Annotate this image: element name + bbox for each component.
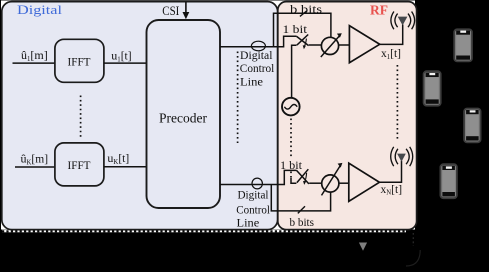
precoder block <box>147 20 221 208</box>
dots oscillator to switch N <box>290 119 292 159</box>
svg-text:ûK[m]: ûK[m] <box>21 152 49 167</box>
faint outer box dotted edge <box>412 233 414 246</box>
amplifier AN <box>349 163 380 201</box>
wire ampN to antenna N <box>379 161 401 183</box>
white paper behind blocks <box>1 1 415 230</box>
amplifier A1 <box>349 26 379 63</box>
phone user 1 <box>454 29 472 61</box>
scroll arrow <box>359 243 367 251</box>
svg-text:Digital: Digital <box>238 187 270 201</box>
svg-text:uK[t]: uK[t] <box>107 151 129 166</box>
wire IFFT1 to precoder <box>104 62 147 64</box>
antenna N <box>397 154 406 162</box>
oscillator LO <box>282 98 300 116</box>
phone user 2 <box>424 71 441 106</box>
faint outer box right corner <box>406 250 420 266</box>
RF block background <box>278 2 417 230</box>
Digital block background <box>2 2 278 230</box>
phase shifter PSN <box>322 175 339 192</box>
dots between IFFT blocks <box>80 96 82 139</box>
phone user 3 <box>464 109 481 143</box>
dots RF chains <box>396 65 398 142</box>
svg-text:IFFT: IFFT <box>68 56 91 68</box>
svg-text:x1[t]: x1[t] <box>381 48 401 61</box>
slash on b bits bottom <box>298 206 305 213</box>
wire switch N to PSN <box>309 182 322 184</box>
phase shifter PS1 <box>321 37 338 54</box>
wire PS1 to amp1 <box>339 44 350 46</box>
wire LO to switch N <box>291 178 296 183</box>
dashed figure border bottom <box>2 230 406 232</box>
slash on b bits top <box>300 11 307 16</box>
svg-text:Control: Control <box>236 202 270 216</box>
svg-text:Control: Control <box>240 61 275 75</box>
b bits wire top <box>274 13 331 47</box>
antenna 1 <box>398 17 408 26</box>
svg-text:CSI: CSI <box>162 3 179 18</box>
CSI arrow <box>185 2 187 14</box>
wire PSN to ampN <box>339 182 349 184</box>
svg-text:Digital: Digital <box>17 2 62 17</box>
wire precoder to RF top (digital control line 1) <box>220 36 297 47</box>
loop on top control wire <box>251 41 265 51</box>
svg-text:Line: Line <box>240 74 263 88</box>
IFFT block 2 <box>55 143 104 186</box>
wire switch1 to phase shifter <box>309 44 322 46</box>
svg-text:RF: RF <box>370 4 388 19</box>
wire input u1 <box>13 62 55 64</box>
svg-text:Precoder: Precoder <box>159 111 207 126</box>
wire amp1 to antenna 1 <box>380 25 403 45</box>
svg-text:xN[t]: xN[t] <box>381 184 403 197</box>
phone user 4 <box>440 164 457 198</box>
loop on bottom control wire <box>252 178 262 189</box>
wire input uK <box>15 166 55 168</box>
svg-text:û1[m]: û1[m] <box>21 48 48 63</box>
svg-text:1 bit: 1 bit <box>283 24 308 36</box>
svg-text:1 bit: 1 bit <box>280 160 303 172</box>
wire IFFT2 to precoder <box>104 166 147 168</box>
svg-text:b bits: b bits <box>290 215 315 229</box>
switch S1 <box>297 36 309 45</box>
svg-text:b bits: b bits <box>290 2 322 16</box>
svg-text:Digital: Digital <box>240 48 273 62</box>
svg-text:u1[t]: u1[t] <box>111 49 131 64</box>
IFFT block 1 <box>55 39 104 82</box>
wire oscillator to switch 1 <box>292 45 297 97</box>
svg-text:IFFT: IFFT <box>68 160 91 172</box>
svg-text:Line: Line <box>237 215 260 229</box>
wire precoder to RF bottom (digital control line N) <box>220 170 296 184</box>
b bits wire bottom <box>271 185 330 211</box>
switch SN <box>296 170 309 184</box>
dots below control label top <box>237 52 239 144</box>
